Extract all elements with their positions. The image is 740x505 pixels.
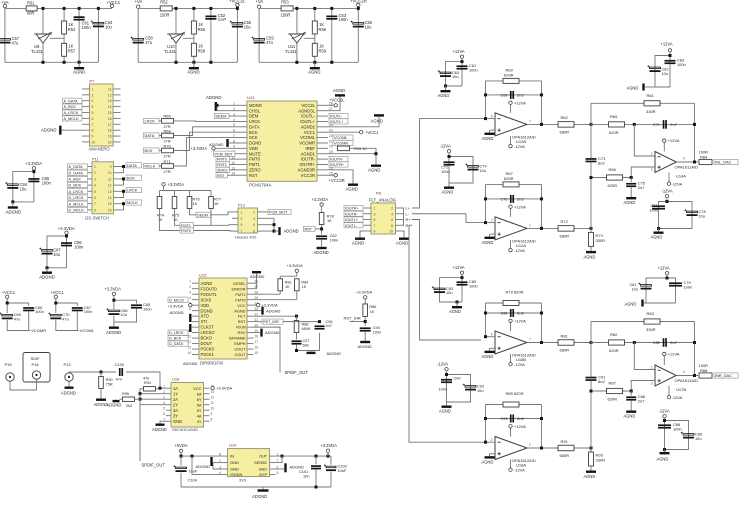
svg-text:ADGND: ADGND	[41, 127, 57, 132]
svg-text:7: 7	[529, 338, 531, 342]
resistor R81 1K	[279, 276, 281, 279]
svg-text:6: 6	[163, 412, 165, 416]
power flag +12VA (U12B)	[510, 104, 512, 113]
svg-text:1: 1	[94, 165, 96, 169]
ground AGND (C79/C81)	[644, 302, 646, 304]
ground AGND (P8 pin10)	[402, 231, 405, 238]
capacitor C85 100n	[28, 178, 39, 180]
svg-text:A_LRCK: A_LRCK	[69, 190, 84, 194]
svg-text:R55: R55	[198, 27, 206, 32]
svg-text:5: 5	[94, 190, 96, 194]
power flag +VA (block1)	[3, 4, 6, 7]
wire C100 to U16	[126, 372, 166, 388]
svg-text:7: 7	[529, 120, 531, 124]
capacitor C104 10uF	[180, 456, 182, 465]
svg-text:100n: 100n	[82, 25, 92, 30]
svg-text:47u: 47u	[145, 40, 152, 45]
svg-text:+3.3VDA: +3.3VDA	[168, 182, 185, 187]
power flag -12VA (U14A)	[668, 173, 670, 183]
ground AGND (C75)	[630, 187, 632, 197]
resistor R73 330R	[590, 228, 592, 232]
svg-text:1K: 1K	[193, 201, 198, 206]
net label A_BCK (P11)	[68, 176, 88, 181]
svg-text:10u: 10u	[105, 24, 112, 29]
svg-text:+5VDA: +5VDA	[175, 443, 188, 448]
svg-text:9: 9	[92, 135, 94, 139]
svg-text:R72: R72	[561, 219, 569, 224]
svg-text:ZERO: ZERO	[217, 168, 228, 172]
svg-text:+VCC2R: +VCC2R	[329, 178, 345, 183]
svg-text:20: 20	[108, 140, 112, 144]
wire L+ to U12B	[412, 119, 486, 208]
resistor R57 1K	[62, 43, 67, 56]
wire left rail block1	[4, 8, 6, 62]
transistor U10 TL431	[169, 34, 183, 43]
wire bottom rail	[259, 61, 358, 63]
resistor R84 1K	[295, 279, 300, 291]
svg-text:TL431: TL431	[164, 49, 177, 54]
svg-text:AGND1: AGND1	[301, 151, 316, 156]
svg-text:BCK: BCK	[249, 130, 258, 135]
svg-text:100n: 100n	[339, 17, 349, 22]
svg-text:2n2: 2n2	[517, 92, 524, 97]
svg-text:10u: 10u	[365, 25, 372, 30]
svg-text:2: 2	[651, 365, 653, 369]
svg-text:1K: 1K	[173, 217, 178, 222]
svg-text:10: 10	[92, 140, 96, 144]
net label RST_DIR (U15 RST)	[254, 321, 263, 323]
capacitor C88 100n	[658, 424, 671, 426]
power flag +VCC1 (U13 pin23)	[328, 131, 360, 133]
svg-text:ADGND: ADGND	[265, 330, 280, 335]
resistor R56 1K	[314, 8, 316, 62]
capacitor C92 10u	[465, 386, 476, 388]
power flag +3.3VDA (pullups)	[162, 183, 165, 186]
capacitor C84 2n2	[510, 309, 512, 317]
svg-text:13: 13	[211, 390, 215, 394]
svg-text:C93: C93	[501, 417, 508, 421]
bracket L+/L-/R+/R- (P8)	[402, 208, 404, 225]
svg-text:-12VA: -12VA	[514, 467, 525, 472]
power flag +VCC2R	[357, 3, 360, 6]
svg-text:ZERO: ZERO	[249, 167, 261, 172]
resistor R54 1K	[63, 8, 65, 62]
svg-text:47u: 47u	[12, 40, 19, 45]
net label IOUTL- (P8)	[344, 223, 363, 228]
svg-text:+3.3VDA: +3.3VDA	[312, 197, 329, 202]
capacitor C83 100n	[665, 60, 676, 62]
svg-text:680R: 680R	[560, 129, 570, 134]
svg-text:+VA: +VA	[135, 0, 143, 4]
svg-text:AGND: AGND	[187, 70, 199, 75]
wire C85 block	[33, 170, 35, 202]
svg-text:10u: 10u	[446, 290, 453, 295]
svg-text:1: 1	[529, 443, 531, 447]
wire bottom rail	[138, 61, 237, 63]
svg-text:R83: R83	[647, 311, 655, 316]
svg-text:TL431: TL431	[285, 49, 298, 54]
svg-text:AGND: AGND	[627, 86, 639, 91]
svg-text:15: 15	[255, 351, 259, 355]
wire FILT gnd join	[297, 333, 320, 351]
svg-text:!SHDN: !SHDN	[230, 472, 243, 477]
wire R81 to FMT1 pin	[254, 293, 281, 295]
op-amp U18A OPA1612AID	[495, 437, 527, 460]
svg-text:R94: R94	[144, 381, 151, 385]
svg-text:ADGND: ADGND	[39, 275, 55, 280]
capacitor C79 100n	[669, 282, 682, 284]
svg-text:10u: 10u	[662, 71, 669, 76]
wire summing node (U14A)	[590, 103, 592, 158]
wire RST net	[315, 228, 322, 230]
svg-text:AGND3R: AGND3R	[298, 167, 315, 172]
svg-text:R81: R81	[285, 280, 292, 284]
svg-text:+12VA: +12VA	[514, 424, 526, 429]
svg-text:+12VA: +12VA	[658, 266, 670, 271]
svg-text:P8: P8	[376, 191, 382, 196]
net label DATA (P11 out)	[126, 163, 142, 168]
ground AGND (U12B +input)	[489, 130, 491, 132]
svg-text:3Y: 3Y	[173, 413, 178, 418]
svg-text:IOUTR-: IOUTR-	[301, 157, 316, 162]
svg-text:C94: C94	[373, 326, 380, 330]
svg-text:100n: 100n	[684, 284, 693, 289]
resistor R77 1K	[210, 191, 212, 197]
svg-text:ADGND: ADGND	[327, 351, 342, 356]
svg-text:VDD: VDD	[249, 146, 258, 151]
svg-text:8: 8	[92, 129, 94, 133]
svg-text:R95: R95	[122, 392, 129, 396]
resistor R72 680R	[558, 226, 574, 232]
svg-text:VDD: VDD	[201, 303, 210, 308]
net label D_BCK (P11)	[68, 183, 88, 188]
ground AGND (C72)	[448, 183, 450, 187]
IC U13 PCM1794A body	[247, 101, 317, 181]
svg-text:+VA: +VA	[1, 0, 9, 5]
resistor R93 330R	[590, 448, 592, 452]
svg-text:+VCC2L: +VCC2L	[329, 98, 345, 103]
capacitor C85 2n7	[663, 338, 665, 347]
wire top rail	[138, 7, 237, 9]
capacitor C56 10u	[357, 8, 359, 62]
svg-text:D_MCLK: D_MCLK	[69, 209, 85, 213]
svg-text:3A: 3A	[173, 408, 178, 413]
net label FMT1 (P12 row)	[180, 223, 194, 228]
wire to - input (U17B)	[634, 343, 655, 370]
svg-text:-12VA: -12VA	[514, 144, 525, 149]
svg-text:CLKST: CLKST	[201, 325, 215, 330]
power flag +12VA (U17B)	[663, 356, 665, 365]
svg-text:GND: GND	[173, 419, 182, 424]
svg-text:INR_DAC: INR_DAC	[715, 373, 732, 378]
svg-text:1: 1	[92, 87, 94, 91]
svg-text:RST: RST	[305, 228, 313, 232]
wire top rail	[259, 7, 358, 9]
wire TL431 branch U11	[296, 8, 298, 33]
net label FMT0 (U13)	[216, 157, 230, 162]
ground AGND (C77)	[657, 227, 660, 230]
net label ZERO (U13)	[216, 167, 230, 172]
svg-text:C76: C76	[501, 197, 508, 201]
svg-text:1A: 1A	[173, 386, 178, 391]
svg-text:6: 6	[233, 129, 235, 133]
capacitor C61 100n	[78, 8, 80, 62]
wire top rail block1	[5, 7, 112, 10]
wire BCK to U13	[174, 132, 237, 150]
svg-text:+3.3VDA: +3.3VDA	[287, 263, 303, 268]
capacitor C58 47u	[133, 39, 144, 41]
svg-text:AGND: AGND	[346, 187, 358, 192]
svg-text:+3.3VDA: +3.3VDA	[25, 161, 42, 166]
svg-text:COUT: COUT	[234, 352, 246, 357]
power flag -12VA (U17B)	[668, 386, 670, 396]
resistor R68 27R	[159, 135, 161, 137]
svg-text:21: 21	[329, 139, 333, 143]
wire P11 pair join	[121, 179, 124, 185]
svg-text:IOUTR+: IOUTR+	[345, 207, 359, 211]
resistor R59 1K	[312, 43, 317, 56]
wire feedback top (R83)	[591, 321, 695, 323]
net label FMT1 (U13)	[216, 162, 230, 167]
svg-text:+3.3VDA: +3.3VDA	[321, 443, 338, 448]
ground AGND (R73)	[590, 246, 592, 251]
wire output U12B	[527, 123, 591, 125]
svg-text:P15: P15	[5, 362, 13, 367]
svg-text:+VCC2L: +VCC2L	[229, 0, 246, 4]
wire R74 to FMT0 net	[160, 209, 181, 231]
wire P15/P16 join	[10, 379, 37, 390]
svg-text:3: 3	[241, 217, 243, 221]
capacitor C69 47u	[2, 314, 13, 316]
net label A_MCLK (P11)	[68, 201, 88, 206]
svg-text:7: 7	[241, 230, 243, 234]
ground AGND (C90)	[446, 402, 448, 406]
resistor R70 27R	[159, 150, 161, 152]
wire SPDIF_OUT down	[140, 404, 166, 406]
capacitor C55 10u	[236, 8, 238, 62]
net label DATA (27R row)	[144, 133, 160, 138]
capacitor C84 10u	[7, 184, 18, 186]
wire U19 OUT rail	[276, 455, 332, 457]
svg-text:-12VA: -12VA	[514, 362, 525, 367]
net label A_BCK (P7)	[63, 104, 83, 109]
svg-text:6Y: 6Y	[197, 397, 202, 402]
svg-text:DATA: DATA	[145, 133, 155, 138]
svg-text:AGND: AGND	[201, 281, 213, 286]
svg-text:100n: 100n	[373, 331, 381, 335]
svg-text:FLT_ANALOG: FLT_ANALOG	[369, 198, 396, 203]
svg-text:16: 16	[255, 346, 259, 350]
svg-text:DOUT: DOUT	[201, 341, 213, 346]
wire C72 block	[448, 153, 450, 183]
svg-text:CHSL: CHSL	[249, 108, 261, 113]
svg-text:19: 19	[108, 135, 112, 139]
svg-text:2: 2	[391, 207, 393, 211]
wire TL431 branch U10	[175, 8, 177, 33]
svg-text:2: 2	[189, 285, 191, 289]
ground AGND (U10 block)	[193, 62, 195, 67]
svg-text:4n7: 4n7	[326, 324, 332, 328]
svg-text:OPA1611AID: OPA1611AID	[675, 164, 699, 169]
capacitor C81 10u	[641, 285, 652, 287]
svg-text:6A: 6A	[197, 391, 202, 396]
svg-text:AGND: AGND	[584, 255, 596, 260]
capacitor C96 4n7	[315, 325, 325, 327]
svg-text:U19: U19	[229, 443, 237, 448]
svg-text:5: 5	[374, 218, 376, 222]
svg-text:-12VA: -12VA	[662, 189, 673, 194]
svg-text:SN74HCU04D: SN74HCU04D	[172, 427, 198, 432]
wire FMT0 to P12 pin7	[194, 230, 233, 233]
resistor R63 1K (IREF)	[338, 146, 350, 151]
svg-text:+3.3VDA: +3.3VDA	[191, 146, 208, 151]
capacitor C64 10u	[97, 8, 99, 62]
svg-text:10: 10	[211, 407, 215, 411]
wire LRCK to U13	[174, 120, 237, 123]
svg-text:OPA1611AID: OPA1611AID	[675, 378, 699, 383]
svg-text:A_BCK: A_BCK	[69, 178, 82, 182]
svg-text:IOUTR-: IOUTR-	[345, 212, 358, 216]
ground AGND (U13 pin24 AGND2)	[328, 117, 379, 127]
svg-text:R51: R51	[27, 0, 35, 5]
svg-text:330R: 330R	[596, 238, 606, 243]
svg-text:AGND: AGND	[368, 168, 380, 173]
wire VCOML bottom	[56, 311, 78, 330]
net label A_LRCK (P7)	[63, 110, 83, 115]
svg-text:2n2: 2n2	[517, 196, 524, 201]
net label INR_DAC	[714, 373, 738, 378]
svg-text:OUT: OUT	[259, 455, 268, 459]
resistor R65 620R row	[591, 123, 695, 125]
svg-text:18: 18	[255, 335, 259, 339]
svg-text:DATA: DATA	[127, 163, 137, 168]
svg-text:+12VA: +12VA	[661, 42, 673, 47]
resistor R65 27R	[159, 120, 161, 122]
connector P11 I2S switch	[92, 162, 114, 214]
IC U19 3V3 LDO body	[228, 449, 270, 477]
capacitor C82 10u	[650, 67, 661, 69]
wire RST net to C96	[283, 321, 320, 323]
svg-text:TL431: TL431	[31, 49, 44, 54]
svg-text:FMT1: FMT1	[249, 162, 261, 167]
wire C86 block	[66, 234, 68, 267]
wire P11 pair join	[121, 204, 124, 210]
svg-text:10n: 10n	[303, 473, 310, 478]
svg-text:9: 9	[110, 165, 112, 169]
resistor R66 620R (+in)	[591, 177, 631, 179]
svg-text:SPDIF_OUT: SPDIF_OUT	[285, 370, 309, 375]
capacitor C94 100n	[360, 327, 371, 329]
svg-text:68n: 68n	[303, 343, 309, 347]
capacitor C65 100n	[131, 304, 142, 306]
svg-text:IOUTL-: IOUTL-	[301, 114, 315, 119]
svg-text:+VA: +VA	[256, 0, 264, 4]
svg-text:620R: 620R	[504, 176, 514, 181]
capacitor C102 10uF	[330, 456, 332, 465]
svg-text:BCK: BCK	[127, 175, 135, 180]
wire left rail	[137, 8, 139, 62]
svg-text:R82: R82	[610, 332, 618, 337]
net label D_MCLK (P11)	[68, 207, 88, 212]
power flag +VA (U10)	[137, 5, 140, 8]
svg-text:A_DATA: A_DATA	[69, 165, 84, 169]
svg-text:PCM1794A: PCM1794A	[249, 183, 272, 188]
svg-text:FMT0: FMT0	[235, 297, 246, 302]
ground ADGND (C86 block)	[46, 266, 49, 269]
svg-text:FILT: FILT	[238, 314, 246, 319]
svg-text:8: 8	[94, 208, 96, 212]
svg-text:+3.3VDA: +3.3VDA	[262, 303, 278, 308]
svg-text:7: 7	[374, 224, 376, 228]
svg-text:FMT1: FMT1	[181, 224, 191, 228]
net label IOUTR+ (P8)	[344, 205, 363, 210]
svg-text:D_DATA: D_DATA	[169, 342, 184, 346]
resistor R81 680R	[558, 340, 574, 346]
svg-text:15: 15	[108, 202, 112, 206]
svg-text:2n7: 2n7	[638, 185, 645, 190]
svg-text:P13: P13	[64, 362, 72, 367]
wire pullup rail	[163, 186, 165, 191]
wire VCOMR rail	[7, 299, 29, 304]
capacitor C52 CAP	[210, 8, 212, 62]
svg-text:100n: 100n	[677, 62, 686, 67]
svg-text:BCKO: BCKO	[201, 336, 213, 341]
svg-text:3: 3	[651, 382, 653, 386]
svg-text:VCOML: VCOML	[334, 136, 348, 140]
capacitor C61 100n	[457, 65, 468, 67]
svg-text:RST: RST	[217, 174, 225, 178]
svg-text:680R: 680R	[560, 348, 570, 353]
wire R- to U18A	[409, 225, 486, 442]
power flag +VCC1 top	[110, 4, 113, 7]
wire C83 block	[669, 52, 671, 87]
power flag +12VA (U18A)	[510, 428, 512, 437]
net label VCOML (U13)	[333, 135, 353, 140]
svg-text:620R: 620R	[608, 397, 618, 402]
ground AGND (R93)	[590, 466, 592, 471]
svg-text:10: 10	[108, 171, 112, 175]
connector P7 AMANERO	[90, 84, 114, 146]
wire ref line U9	[50, 37, 64, 39]
svg-text:IOUTL+: IOUTL+	[330, 120, 344, 124]
svg-text:C84: C84	[501, 311, 508, 315]
svg-text:AGND: AGND	[584, 474, 596, 479]
svg-text:2n2: 2n2	[517, 416, 524, 421]
wire +5V rail	[181, 453, 222, 457]
svg-text:2n7: 2n7	[670, 122, 677, 127]
resistor R61 330R	[644, 101, 660, 106]
net label D_DATA (P11)	[68, 170, 88, 175]
capacitor C74 10u	[468, 166, 479, 168]
svg-text:R68: R68	[164, 128, 171, 133]
svg-text:4: 4	[233, 118, 235, 122]
power flag +12VA (U14A)	[663, 142, 665, 151]
wire DEEM to P12 pin1	[211, 212, 233, 215]
svg-text:VCOMR: VCOMR	[31, 328, 46, 333]
svg-text:FMT0: FMT0	[217, 158, 227, 162]
svg-text:2: 2	[491, 218, 493, 222]
svg-text:AGND: AGND	[625, 302, 637, 307]
wire P11 pair join	[121, 191, 124, 197]
svg-text:2n7: 2n7	[638, 399, 645, 404]
svg-text:SDIF: SDIF	[31, 356, 41, 361]
svg-text:AGND: AGND	[482, 354, 494, 359]
svg-text:AGND: AGND	[438, 93, 450, 98]
ground ADGND (U19 out gnd)	[276, 468, 285, 470]
ground AGND (C88)	[663, 448, 666, 451]
svg-text:R81: R81	[561, 333, 569, 338]
resistor R86 1K	[364, 299, 366, 304]
